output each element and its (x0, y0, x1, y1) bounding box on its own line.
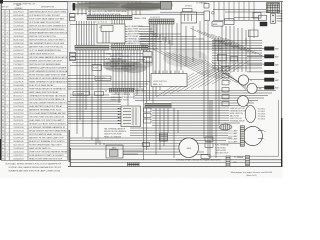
terminal strip D (110, 88, 134, 92)
scan noise (0, 0, 1, 1)
component box interior (123, 108, 136, 126)
top-left corner blob (0, 0, 3, 4)
regulator inner box (110, 150, 119, 157)
grid small box 1 (218, 54, 227, 61)
connector J3 (70, 53, 76, 57)
fold dark smear right of table (68, 130, 70, 162)
lamp L1 (247, 83, 257, 93)
small label box bottom (201, 155, 210, 159)
switch box fanout lines (125, 27, 162, 42)
small box cluster mid 1 (143, 52, 152, 57)
orthogonal grid right-mid (212, 38, 262, 72)
fuse block label box (183, 9, 193, 12)
bottom schematic frame (68, 165, 282, 167)
dark bracket left top (73, 3, 75, 10)
strip F drops (151, 24, 172, 46)
terminal strip B (75, 45, 109, 50)
horizontal bus group right (70, 91, 276, 155)
vertical connector P2 (246, 156, 250, 166)
legend table frame (1, 2, 67, 161)
fold shadow band (68, 2, 71, 160)
diagonal wire mesh (153, 28, 263, 97)
inner right frame (278, 100, 280, 156)
table left edge dark line (0, 2, 2, 161)
fuse small box mid-left (92, 65, 102, 71)
junction small box bottom (143, 143, 150, 147)
component sub-box right 1 (144, 108, 152, 112)
starter brush bar (240, 126, 244, 146)
ignition switch box (97, 24, 125, 43)
grid small box 2 (230, 57, 238, 61)
labels under mid smudge (106, 53, 132, 71)
solenoid box 2 (205, 143, 213, 148)
fuse block box (181, 12, 197, 23)
sender small box (204, 4, 209, 9)
component box pins left (118, 108, 121, 124)
white island box (151, 74, 187, 87)
wire drops below strips B/C (77, 50, 147, 160)
fold line bottom (69, 148, 71, 166)
tall component box (204, 11, 210, 21)
terminal circle (212, 12, 215, 15)
distributor left labels (230, 107, 247, 123)
distributor oval (245, 106, 256, 123)
voltage regulator box (106, 145, 123, 158)
left page edge dark bar (0, 139, 1, 160)
blur filter def (0, 0, 1, 1)
scan smudge top (72, 1, 173, 11)
ignition switch inner box (101, 25, 113, 31)
ballast resistor box (160, 133, 168, 141)
strip F row labels (141, 33, 159, 51)
solenoid box 1 (205, 137, 213, 142)
terminal strip C (111, 45, 148, 50)
annotation cluster right of oval (258, 108, 266, 120)
switch fanout labels (128, 25, 146, 43)
smudge box right end (161, 2, 172, 10)
horn H1 (238, 75, 248, 85)
label box A top (212, 22, 223, 27)
connector J2 (70, 18, 76, 21)
right edge terminal ticks (277, 11, 283, 21)
component sub-box right 3 (144, 119, 152, 123)
top right horizontals (213, 10, 271, 21)
oval lamp with hatch (219, 124, 232, 130)
island pins (155, 71, 183, 74)
flasher relay stack (222, 67, 229, 106)
connector J4 (70, 57, 76, 60)
top feed verticals (214, 1, 254, 20)
dark block top right (260, 22, 267, 26)
relay box top right (259, 15, 267, 20)
label box B top (225, 19, 235, 25)
legend table rows (1, 10, 68, 160)
B.O. label rows (229, 130, 239, 144)
right page border (281, 1, 283, 167)
strip F label rows lines (140, 34, 246, 49)
switch inner verticals (103, 32, 109, 44)
label box mid-left (95, 76, 111, 80)
generator G (179, 138, 199, 158)
vertical connector P1 (226, 156, 230, 167)
label box row2 (95, 91, 104, 95)
rows under component box (104, 127, 127, 138)
trunk verticals middle (150, 21, 255, 158)
solenoid label rows (215, 144, 229, 155)
grid text rows (213, 41, 228, 51)
main component box center (121, 106, 141, 127)
terminal strip A (87, 15, 132, 20)
battery terminal blocks right column (265, 47, 280, 90)
footnote text block (6, 163, 63, 173)
label box row1 (73, 91, 90, 95)
component sub-box right 2 (144, 114, 152, 118)
small box cluster mid 2 (143, 58, 152, 63)
resistor box top (253, 13, 261, 19)
lamp L2 (238, 96, 249, 107)
horizontal bus group left (68, 12, 204, 123)
small strip H (128, 162, 140, 166)
wire drops strip A to B/C (77, 20, 125, 45)
ignition coil top right (271, 13, 276, 23)
right column feed stubs (247, 49, 265, 88)
fuse block top right (267, 3, 280, 13)
strip A risers (78, 1, 140, 15)
regulator feed lines (96, 138, 143, 154)
wire drops inside switch box (103, 32, 109, 44)
terminal strip F (149, 19, 174, 24)
connector J1 (70, 14, 76, 17)
scan smudge diag area (163, 49, 207, 67)
scan smudge middle (103, 60, 153, 73)
relay small box mid-right (249, 30, 259, 37)
page top border (0, 0, 283, 2)
rows under strip D (111, 93, 135, 101)
terminal strip E (145, 103, 171, 108)
starter motor circle (243, 126, 262, 145)
